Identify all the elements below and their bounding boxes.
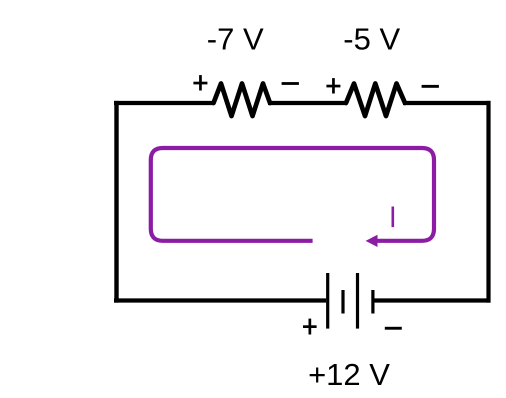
- label: + polarity at R2 left: [326, 78, 340, 93]
- battery B1: [326, 273, 374, 329]
- svg-text:-7 V: -7 V: [207, 22, 264, 57]
- wire: left vertical: [114, 101, 118, 303]
- arrowhead of current loop: [366, 235, 378, 247]
- current loop arrow (clockwise current direction indicator): [151, 148, 434, 241]
- label: − polarity at battery right: [385, 327, 402, 330]
- wire: bottom-left segment: [114, 298, 326, 302]
- resistor R1: [214, 84, 271, 117]
- label: − polarity at R1 right: [282, 82, 299, 85]
- battery plate: short negative: [341, 290, 344, 314]
- battery plate: long positive (left): [326, 273, 329, 329]
- svg-text:-5 V: -5 V: [343, 22, 400, 57]
- wire: right vertical: [486, 101, 490, 303]
- svg-text:+12 V: +12 V: [308, 357, 390, 392]
- battery plate: short negative (right): [371, 290, 374, 314]
- wire: bottom-right segment: [374, 298, 490, 302]
- label: + polarity at battery left: [303, 319, 317, 335]
- battery plate: long positive (right): [356, 273, 359, 329]
- wire: top-left segment: [114, 101, 214, 105]
- wire: top-right segment: [403, 101, 491, 105]
- label: − polarity at R2 right: [422, 85, 439, 88]
- wire: between resistors: [268, 101, 347, 105]
- label: I (loop current): [392, 207, 395, 228]
- resistor R2: [346, 84, 405, 117]
- label: + polarity at R1 left: [193, 75, 207, 90]
